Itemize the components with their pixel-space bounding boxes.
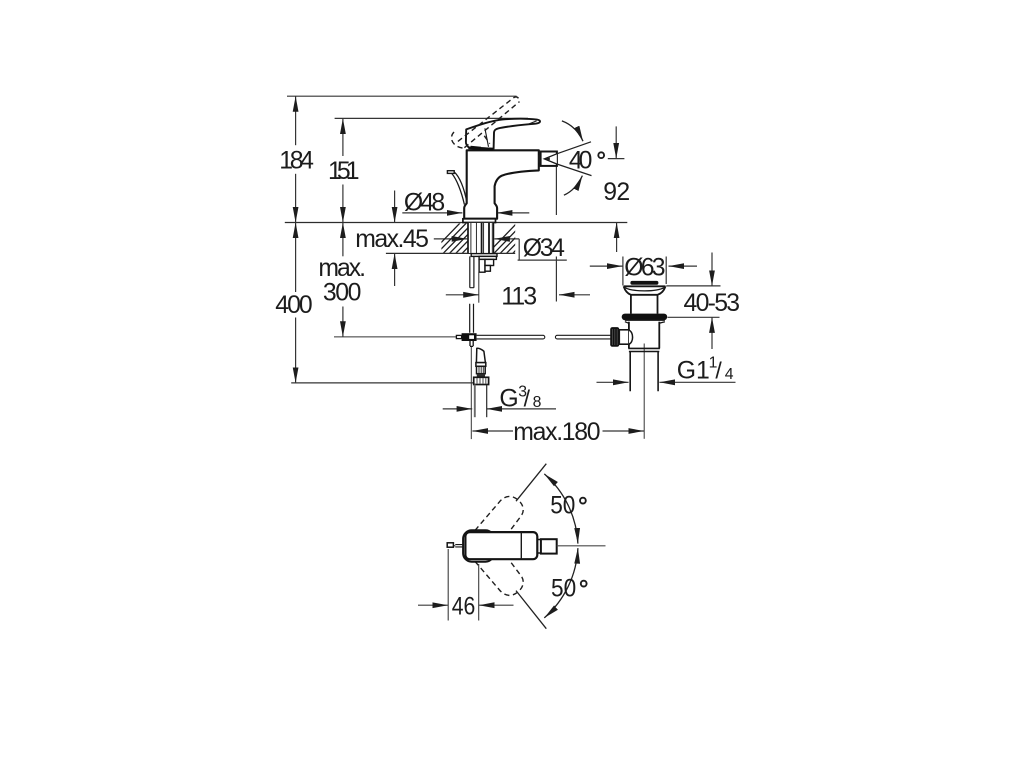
deck top line — [285, 222, 628, 224]
spray cone outline — [544, 154, 557, 164]
faucet centerline below nut — [478, 272, 480, 302]
50deg arc upper — [544, 474, 578, 544]
dim 113 left — [446, 294, 479, 296]
svg-text:max.45: max.45 — [355, 226, 429, 253]
LOWER DRAWING: top view with swivel angles — [418, 464, 606, 629]
dim 184 upper segment — [295, 96, 297, 145]
pop-up rod knob — [447, 543, 453, 547]
svg-text:40-53: 40-53 — [684, 290, 741, 317]
pop-up pull rod above deck — [447, 171, 467, 205]
hatched counter section left of shank — [430, 221, 544, 254]
40deg arc arrow upper — [562, 121, 583, 141]
max45 top arrow — [394, 191, 396, 223]
handle outer capsule (top view) — [463, 530, 494, 561]
drain centerline — [643, 344, 645, 439]
dim max180 left — [472, 430, 513, 432]
ext line top (184 ref) — [287, 95, 517, 97]
horizontal connection tube right segment — [555, 335, 610, 339]
dim 400 lower segment — [295, 318, 297, 383]
G3/8 fitting: angled nipple — [476, 348, 485, 362]
dim 151 lower segment — [342, 185, 344, 223]
UPPER DRAWING: side view of bidet mixer — [275, 96, 740, 446]
92 bottom arrow — [616, 223, 618, 253]
40-53 bottom arrow — [711, 317, 713, 349]
50deg line upper — [516, 464, 546, 502]
pull rod mid section — [470, 304, 474, 333]
svg-text:/: / — [715, 357, 722, 383]
92 top arrow — [615, 126, 617, 158]
spout neck — [537, 540, 541, 554]
mounting nut step 1 — [479, 256, 496, 259]
handle crease — [485, 128, 489, 147]
dim 46 left arrow — [418, 604, 448, 606]
dim 113 right — [559, 294, 590, 296]
dim 151 upper segment — [342, 118, 344, 156]
dim048 right — [497, 212, 530, 214]
dimension texts — [275, 147, 740, 446]
svg-text:G1: G1 — [677, 357, 710, 384]
max45 bottom arrow — [394, 253, 396, 286]
washer under counter — [471, 254, 497, 257]
dim 46 extension right — [478, 564, 480, 621]
deck bottom line — [386, 252, 515, 254]
spout outlet extension line upper — [555, 167, 557, 216]
dim 184 lower segment — [295, 174, 297, 223]
mounting nut step 3 — [485, 266, 490, 272]
fitting collar — [476, 363, 486, 367]
degree circle upper — [580, 498, 586, 504]
fitting nut — [474, 377, 489, 384]
ext063 left — [622, 257, 624, 286]
40-53 bottom reference — [668, 316, 720, 318]
ext063 right — [665, 257, 667, 285]
horizontal connection tube left segment — [477, 335, 545, 339]
drain seal ring — [622, 314, 668, 321]
svg-text:400: 400 — [275, 292, 312, 319]
fitting ribbed section — [477, 366, 486, 373]
centerline right — [557, 545, 606, 547]
svg-text:300: 300 — [323, 279, 362, 306]
degree symbol of 40 — [598, 152, 604, 158]
svg-text:max.: max. — [318, 255, 366, 282]
base plate — [463, 219, 496, 223]
valve stem — [619, 330, 629, 344]
svg-text:4: 4 — [725, 366, 734, 383]
dim 46 right arrow — [479, 604, 514, 606]
spray line upper — [557, 142, 591, 154]
side knurled knob — [610, 327, 619, 347]
svg-text:8: 8 — [533, 394, 542, 411]
svg-text:113: 113 — [501, 284, 537, 311]
svg-text:46: 46 — [452, 594, 476, 621]
handle raised position (dashed) — [451, 97, 519, 148]
spray line lower — [557, 164, 592, 176]
valve boss arc — [629, 330, 633, 344]
dim063 right — [669, 265, 698, 267]
svg-text:184: 184 — [279, 147, 314, 174]
handle swivel position lower (dashed) — [475, 561, 523, 595]
handle tip notch — [528, 121, 537, 125]
dim048 left — [402, 212, 462, 214]
dim max180 right — [603, 430, 645, 432]
pull rod upper section — [470, 256, 474, 287]
dim034 leader left arrow — [434, 238, 468, 240]
50deg arc lower — [544, 548, 578, 618]
dim G1 1/4 left — [597, 381, 629, 383]
flexible hose — [474, 385, 476, 418]
rod linkage junction — [462, 333, 477, 341]
svg-text:Ø34: Ø34 — [523, 235, 565, 262]
faucet body — [464, 150, 539, 218]
aerator (top view) — [541, 539, 557, 553]
handle swivel position upper (dashed) — [475, 496, 523, 530]
faucet body (top view) — [465, 532, 537, 559]
dim063 left — [590, 265, 623, 267]
spout separation line — [520, 532, 522, 559]
dim G1 1/4 right — [659, 381, 735, 383]
drain flange — [624, 286, 666, 295]
aerator washer — [539, 155, 541, 163]
svg-text:max.180: max.180 — [513, 419, 600, 446]
ext line 151 ref — [335, 117, 528, 119]
pop-up rod (top view) — [455, 545, 463, 547]
handle base dark band — [468, 148, 493, 149]
svg-text:/: / — [524, 385, 531, 411]
svg-text:40: 40 — [569, 147, 593, 174]
dim G3/8 right — [487, 408, 557, 410]
seal lip — [625, 320, 665, 323]
mounting nut step 2 — [485, 259, 494, 265]
dim G3/8 left — [443, 408, 473, 410]
dim 400 upper segment — [295, 223, 297, 293]
svg-text:50: 50 — [550, 492, 575, 519]
400 bottom reference line — [291, 382, 473, 384]
dim034 leader bend — [518, 239, 567, 260]
92 top tick — [608, 158, 625, 160]
svg-text:Ø63: Ø63 — [624, 255, 665, 282]
dim 46 extension left — [447, 549, 449, 621]
junction lower stub — [470, 341, 473, 346]
svg-text:G: G — [499, 385, 518, 412]
40-53 top arrow — [711, 253, 713, 286]
svg-text:92: 92 — [603, 179, 630, 206]
mounting nut body left — [479, 259, 485, 272]
degree circle lower — [581, 581, 587, 587]
dim max300 lower segment — [342, 307, 344, 337]
40-53 top reference — [666, 285, 720, 287]
aerator body — [541, 152, 557, 166]
valve body below seal — [629, 322, 659, 349]
spray cone tip — [544, 158, 550, 161]
dim max300 upper segment — [342, 223, 344, 257]
fitting dark ring — [477, 374, 485, 378]
spout outlet extension line lower — [555, 257, 557, 302]
max180 left extension / pull rod lower — [470, 346, 472, 439]
svg-text:Ø48: Ø48 — [404, 190, 445, 217]
dim034 leader right arrow — [494, 238, 519, 240]
valve body bottom flange — [628, 348, 660, 351]
40deg arc arrow lower — [564, 176, 583, 196]
pull rod long thin line — [334, 336, 456, 338]
handle (solid, lowered position) — [466, 119, 540, 149]
drain cap — [630, 281, 658, 285]
tail pipe — [630, 352, 658, 392]
svg-text:151: 151 — [328, 158, 360, 185]
threaded shank in counter — [468, 223, 494, 253]
svg-text:50: 50 — [551, 575, 576, 602]
50deg line lower — [516, 591, 546, 629]
drain body — [631, 295, 658, 314]
